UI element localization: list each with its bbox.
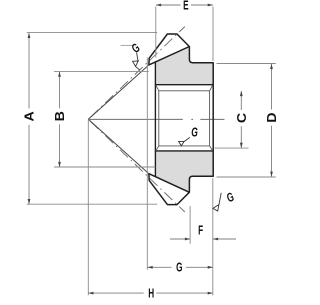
bore inner lines — [159, 91, 210, 146]
bore chamfer edges — [156, 85, 213, 150]
extension line C bottom — [215, 147, 249, 149]
label E — [183, 0, 188, 13]
dimension C line — [240, 91, 242, 148]
svg-text:C: C — [234, 113, 248, 123]
label A — [22, 111, 36, 121]
extension line A bottom — [27, 203, 158, 205]
dimension G line — [148, 266, 213, 268]
svg-text:A: A — [22, 111, 36, 121]
gear body section fill upper — [155, 47, 213, 85]
svg-text:F: F — [198, 224, 203, 238]
extension line E right — [212, 7, 214, 62]
extension line E left — [155, 7, 157, 58]
label H — [148, 287, 154, 301]
label D — [265, 112, 279, 122]
gear outline — [149, 34, 213, 205]
dimension F line — [170, 238, 236, 240]
extension line D bottom — [217, 176, 276, 178]
gear body section fill lower — [155, 151, 213, 192]
label F — [198, 224, 203, 238]
extension line B top — [54, 70, 149, 72]
svg-text:H: H — [148, 287, 154, 300]
surface finish symbol on hub face — [213, 205, 219, 211]
svg-text:G: G — [191, 126, 198, 140]
label C — [234, 113, 248, 123]
surface finish symbol in bore — [179, 141, 185, 146]
pitch cone line upper — [88, 27, 185, 120]
svg-text:G: G — [176, 261, 182, 275]
bore outline top — [155, 84, 213, 86]
pitch cone line lower — [88, 119, 185, 212]
extension line D top — [217, 63, 276, 65]
extension line hub face right — [212, 178, 214, 295]
svg-text:E: E — [183, 0, 188, 13]
svg-text:B: B — [53, 111, 67, 121]
label G — [176, 261, 182, 275]
dimension H line — [88, 292, 213, 294]
extension line G left (tooth front face) — [146, 58, 148, 270]
svg-text:G: G — [225, 190, 237, 206]
svg-text:G: G — [129, 41, 143, 56]
bore outline bottom — [155, 150, 213, 152]
svg-text:D: D — [265, 112, 279, 122]
tooth root line lower — [149, 174, 190, 193]
front cone face lower — [88, 119, 149, 173]
extension line B bottom — [54, 166, 155, 168]
gear back face — [154, 62, 156, 177]
dimension D line — [271, 64, 273, 177]
dimension E line — [156, 4, 213, 6]
dimension A line — [28, 33, 30, 204]
extension line A top — [27, 32, 158, 34]
front cone face upper — [88, 65, 149, 119]
extension line F left — [189, 206, 191, 244]
extension line apex (H left) — [87, 119, 89, 295]
surface finish symbol on tooth face — [133, 61, 139, 66]
label B — [53, 111, 67, 121]
center axis line — [88, 118, 224, 120]
dimension B line — [59, 72, 61, 167]
tooth root line upper — [149, 47, 190, 65]
